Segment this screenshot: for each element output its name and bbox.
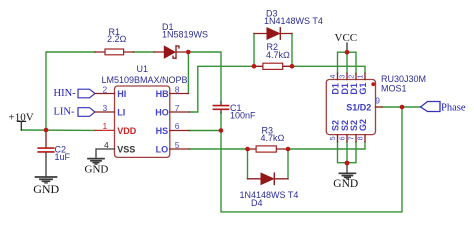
wire D3 right riser: [291, 34, 293, 67]
node R2 left junction: [252, 64, 257, 69]
U1 pin 2 HI: [95, 84, 126, 99]
node R3 left junction: [245, 147, 250, 152]
svg-text:4: 4: [328, 75, 337, 79]
svg-text:1N4148WS T4: 1N4148WS T4: [240, 190, 299, 200]
capacitor C1 100nF: [213, 102, 256, 120]
svg-text:GND: GND: [85, 163, 109, 175]
resistor R1: [95, 27, 134, 55]
svg-text:2: 2: [347, 75, 356, 79]
svg-text:1uF: 1uF: [55, 152, 71, 162]
node R2 right junction: [290, 64, 295, 69]
svg-text:HB: HB: [156, 89, 169, 99]
svg-text:G1: G1: [358, 83, 368, 95]
wire R2 right node to G1: [292, 66, 365, 73]
svg-text:1: 1: [103, 121, 108, 131]
MOS1 pin 5 S2: [328, 120, 341, 142]
svg-text:4: 4: [104, 140, 109, 150]
power flag +10V: [9, 112, 34, 131]
ground under C2: [33, 177, 59, 196]
wire C1 bottom to HS node and bottom run to phase: [221, 107, 402, 212]
output port Phase: [421, 102, 466, 114]
resistor R2 4.7k: [254, 42, 292, 69]
U1 pin 8 HB: [156, 84, 189, 99]
MOS1 pin 8 G2: [356, 119, 369, 142]
node S2 ground junction: [345, 161, 350, 166]
node +10V / VDD junction: [44, 128, 49, 133]
wire D4 left riser: [247, 149, 249, 179]
input port LIN-: [54, 107, 96, 118]
svg-text:7: 7: [175, 103, 180, 113]
svg-text:8: 8: [356, 136, 365, 140]
svg-text:1N4148WS T4: 1N4148WS T4: [264, 16, 323, 26]
diode D1 1N5819WS schottky: [154, 22, 208, 58]
wire LO pin 5 to R3 left node: [189, 148, 247, 150]
svg-text:Phase: Phase: [441, 103, 466, 114]
wire MOS pin 9 to phase node: [382, 106, 421, 108]
svg-text:HS: HS: [156, 126, 169, 136]
svg-text:1N5819WS: 1N5819WS: [162, 30, 208, 40]
input port HIN-: [54, 88, 96, 99]
wire top-left rail from +10V node up to R1: [46, 52, 95, 130]
wire R3 right node to G2: [288, 142, 365, 149]
wire D1 cathode node to C1 top (HB net): [188, 52, 221, 102]
svg-text:S1/D2: S1/D2: [346, 103, 371, 113]
svg-text:D1: D1: [331, 83, 341, 95]
node R3 right junction: [286, 147, 291, 152]
svg-text:U1: U1: [137, 64, 149, 74]
U1 pin 6 HS: [156, 121, 190, 136]
svg-text:100nF: 100nF: [230, 110, 256, 120]
svg-text:5: 5: [175, 140, 180, 150]
svg-text:S2: S2: [331, 120, 341, 131]
svg-text:9: 9: [375, 95, 380, 105]
svg-text:GND: GND: [333, 178, 358, 190]
wire D4 right riser: [287, 149, 289, 179]
U1 pin 4 VSS with ground: [96, 140, 135, 157]
svg-text:6: 6: [338, 136, 347, 140]
U1 pin 1 VDD: [95, 121, 137, 136]
node HS / C1 junction: [219, 128, 224, 133]
svg-text:8: 8: [175, 84, 180, 94]
svg-text:GND: GND: [33, 182, 59, 196]
diode D4 1N4148WS: [240, 173, 299, 208]
transistor module MOS1 RU30J30M body: [326, 74, 426, 135]
svg-text:2.2Ω: 2.2Ω: [107, 34, 127, 44]
wire S2 drops to ground bar: [338, 142, 357, 163]
svg-text:LI: LI: [117, 107, 125, 117]
svg-text:G2: G2: [358, 119, 368, 131]
ground under MOS1: [333, 164, 358, 190]
power flag VCC: [335, 32, 358, 52]
U1 pin 7 HO: [155, 103, 189, 118]
wire HB riser to pin 8: [187, 52, 189, 94]
capacitor C2 1uF: [38, 132, 70, 177]
svg-text:7: 7: [347, 136, 356, 140]
MOS1 pin 7 S2: [347, 120, 360, 142]
svg-text:6: 6: [175, 121, 180, 131]
diode D3 1N4148WS: [254, 9, 323, 40]
svg-text:3: 3: [338, 75, 347, 79]
svg-text:4.7kΩ: 4.7kΩ: [261, 133, 285, 143]
svg-text:3: 3: [103, 103, 108, 113]
node VCC junction: [345, 50, 350, 55]
wire R1 to D1: [134, 51, 154, 53]
wire HO pin 7 riser to R2 left node: [189, 66, 254, 112]
svg-text:D4: D4: [251, 198, 263, 208]
resistor R3 4.7k: [248, 125, 289, 152]
svg-text:4.7kΩ: 4.7kΩ: [266, 50, 290, 60]
U1 pin 3 LI: [95, 103, 125, 118]
svg-text:MOS1: MOS1: [381, 83, 407, 93]
MOS1 pin 1 G1: [356, 73, 369, 94]
svg-text:HIN-: HIN-: [54, 88, 77, 99]
svg-text:LO: LO: [156, 144, 169, 154]
svg-text:5: 5: [328, 136, 337, 140]
svg-text:VSS: VSS: [117, 144, 135, 154]
wire VCC bar and drain risers: [338, 52, 357, 73]
MOS1 pin 2 D1: [347, 73, 360, 94]
MOS1 pin 4 D1: [328, 73, 341, 94]
MOS1 pin 9 S1/D2: [375, 95, 382, 107]
svg-text:2: 2: [103, 84, 108, 94]
svg-text:VDD: VDD: [117, 126, 137, 136]
MOS1 pin 6 S2: [338, 120, 351, 142]
svg-text:HI: HI: [117, 89, 126, 99]
ground at VSS: [85, 159, 109, 176]
wire D3 left riser: [253, 34, 255, 67]
svg-text:VCC: VCC: [335, 32, 358, 44]
MOS1 pin 3 D1: [338, 73, 351, 94]
wire +10V to VDD node: [21, 129, 95, 131]
svg-text:LIN-: LIN-: [54, 107, 75, 118]
node phase junction: [400, 105, 405, 110]
U1 pin 5 LO: [156, 140, 190, 155]
wire HS pin 6 to C1 node: [189, 130, 221, 132]
svg-text:HO: HO: [155, 107, 169, 117]
op-amp U1 LM5109BMAX/NOPB gate driver IC body: [102, 64, 188, 158]
svg-text:1: 1: [356, 75, 365, 79]
node D1 cathode / HB junction: [186, 50, 191, 55]
